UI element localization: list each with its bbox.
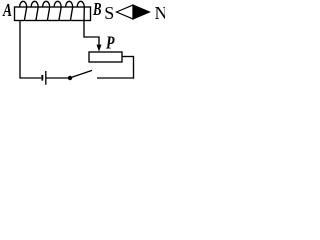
wire: switch right terminal to corner xyxy=(97,77,134,79)
battery positive plate (long thin) xyxy=(45,71,47,85)
compass needle N half (black) xyxy=(133,5,150,19)
svg-text:A: A xyxy=(2,0,12,20)
wire: battery to switch xyxy=(46,77,68,79)
wire: right vertical xyxy=(133,57,135,79)
compass needle (left white half) xyxy=(117,5,134,19)
wiper arrowhead xyxy=(97,45,102,52)
coil turn front diagonals xyxy=(24,7,84,21)
wire: B lead to wiper xyxy=(84,21,99,46)
wire: A lead down xyxy=(19,21,21,79)
rheostat R body xyxy=(89,52,122,62)
svg-text:N: N xyxy=(155,3,166,23)
battery negative plate (short thick) xyxy=(41,75,43,81)
solenoid coil core xyxy=(15,7,91,21)
svg-text:S: S xyxy=(104,3,114,23)
wire: rheostat right lead xyxy=(122,56,134,58)
svg-text:P: P xyxy=(105,33,115,53)
wire: bottom left horizontal xyxy=(19,77,41,79)
switch lever (open) xyxy=(72,70,93,77)
coil turn arcs xyxy=(20,1,85,7)
svg-text:B: B xyxy=(92,0,101,19)
switch pivot junction dot xyxy=(68,76,72,80)
